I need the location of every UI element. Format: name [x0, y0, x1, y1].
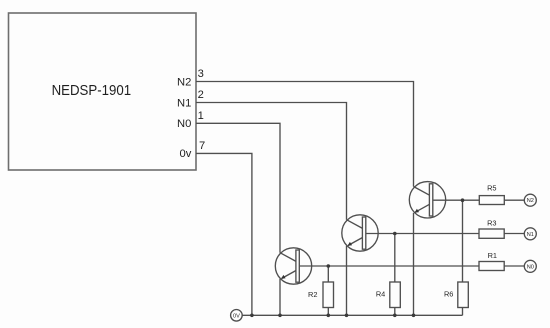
- junction rail-Q3e: [412, 314, 416, 318]
- terminal N2: [524, 194, 536, 206]
- junction rail-Q1e: [278, 314, 282, 318]
- junction rail-R2: [327, 314, 331, 318]
- junction base2-R4: [393, 232, 397, 236]
- terminal N0: [524, 260, 536, 272]
- svg-text:R1: R1: [488, 251, 497, 260]
- svg-text:N1: N1: [177, 97, 191, 109]
- IC U1 NEDSP-1901 box: [9, 13, 197, 170]
- svg-text:2: 2: [198, 89, 204, 101]
- svg-text:0V: 0V: [233, 313, 240, 319]
- transistor Q2: [342, 215, 378, 251]
- wire R2 drop: [327, 266, 329, 282]
- wire pin 2 to node above Q2: [196, 103, 347, 220]
- svg-text:R4: R4: [376, 290, 385, 299]
- svg-text:R6: R6: [444, 290, 453, 299]
- resistor R6: [458, 282, 469, 308]
- transistor Q3: [409, 182, 445, 218]
- wire pin 3 to node above Q3: [196, 82, 414, 187]
- resistor R2: [323, 282, 334, 308]
- svg-text:N2: N2: [177, 76, 191, 88]
- junction rail-Q2e: [345, 314, 349, 318]
- wire Q1 emitter to rail: [279, 279, 281, 316]
- svg-text:NEDSP-1901: NEDSP-1901: [52, 83, 132, 99]
- svg-text:N1: N1: [527, 232, 534, 238]
- terminal N1: [524, 228, 536, 240]
- junction rail-pin7: [250, 314, 254, 318]
- terminal 0V: [231, 310, 243, 322]
- wire Q2 base line to R3 and N1: [366, 233, 479, 235]
- svg-text:N2: N2: [527, 198, 534, 204]
- resistor R5: [479, 196, 504, 205]
- svg-text:0v: 0v: [179, 148, 191, 160]
- svg-text:R5: R5: [487, 183, 496, 192]
- junction base3-R6: [461, 198, 465, 202]
- wire Q3 emitter to rail: [413, 213, 415, 315]
- wire Q1 base line to R1 and N0: [300, 265, 480, 267]
- transistor Q1: [275, 248, 311, 284]
- svg-text:7: 7: [199, 140, 205, 152]
- wire R6 drop: [462, 200, 464, 282]
- svg-text:N0: N0: [177, 118, 191, 130]
- svg-text:3: 3: [198, 68, 204, 80]
- junction base1-R2: [327, 264, 331, 268]
- svg-text:R2: R2: [308, 290, 317, 299]
- svg-text:R3: R3: [487, 219, 496, 228]
- wire Q3 base line to R5 and N2: [434, 199, 480, 201]
- junction rail-R4: [393, 314, 397, 318]
- svg-text:N0: N0: [527, 264, 534, 270]
- resistor R3: [479, 229, 504, 238]
- wire R4 drop: [394, 234, 396, 283]
- wire pin 1 to node above Q1: [196, 123, 280, 252]
- svg-text:1: 1: [198, 110, 204, 122]
- resistor R4: [390, 282, 401, 308]
- wire pin 7 to 0V rail: [196, 153, 252, 315]
- wire 0V rail: [242, 314, 462, 316]
- resistor R1: [479, 262, 504, 271]
- wire Q2 emitter to rail: [346, 246, 348, 315]
